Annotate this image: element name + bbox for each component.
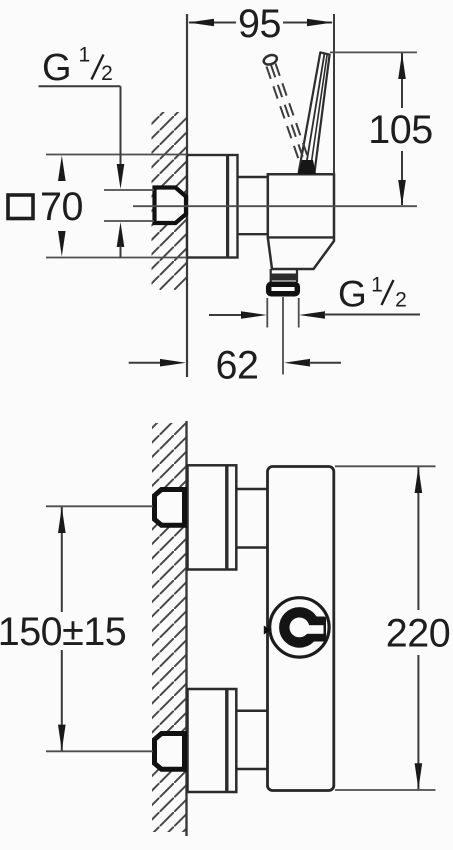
lower escutcheon [188,689,237,792]
dimension 95 left arrow [188,19,214,27]
thermostat knob inner ring [284,612,314,642]
upper escutcheon [188,465,237,569]
svg-text:95: 95 [238,2,281,46]
temperature index mark [264,626,271,635]
mixer body (side view) [268,174,334,269]
lever handle dashed line 2 [271,65,304,159]
svg-text:220: 220 [386,612,450,656]
lever inner line 2 [310,54,327,172]
lower connector stub top [236,710,267,713]
upper wall union nut (front view) [155,490,185,526]
dimension 150 line lower segment [61,650,63,751]
svg-text:150±15: 150±15 [0,610,126,654]
knob safety button slot [298,625,324,634]
dimension 105 bottom arrow [398,180,406,206]
hose centre line [282,297,284,375]
dimension 62 left arrow [160,359,186,367]
escutcheon plate (side view) [187,155,238,258]
svg-text:1: 1 [371,274,383,297]
wall line (front view) [185,421,187,836]
lever handle dashed line 1 [267,67,300,161]
dimension 95 line right segment [283,22,332,24]
dashed lever tip cap [262,53,278,66]
svg-text:2: 2 [101,62,113,85]
knob safety button [310,617,327,642]
counter arrow tail [120,246,122,258]
hose thread dim right arrow [299,311,325,319]
upper connector stub top [236,488,267,491]
hose thread dim left arrow [241,311,267,319]
hose union nut (side view) [269,284,298,294]
centre axis line / 105 bottom extension [133,205,417,207]
outlet nipple right edge [296,269,298,282]
mixer body (front view) [268,467,334,791]
dimension 70 bottom arrow [58,231,66,257]
svg-text:105: 105 [368,108,432,152]
svg-text:62: 62 [216,343,259,387]
G 1/2 leader arrow [117,164,125,189]
hose thread dim right line / underline [324,314,420,316]
lever handle (solid position) [299,52,330,172]
dimension 105 top arrow [398,53,406,79]
thread label fraction slash [92,55,104,80]
thread silhouette bottom line [104,220,154,222]
svg-text:1: 1 [78,44,90,67]
body internal line [268,236,334,238]
dimension 70 top arrow [58,156,66,182]
dimension 150 line upper segment [61,507,63,612]
outlet thread band [271,274,297,281]
105 top extension line [330,51,417,53]
outlet nipple left edge [270,269,272,282]
connector neck bottom line [238,233,268,235]
150 bottom extension / centre line [46,750,153,752]
hose thread dim left line [209,314,242,316]
wall union nut (side view) [155,188,187,224]
svg-text:G: G [42,47,72,89]
dimension 62 right arrow [284,359,310,367]
dimension 95 line left segment [189,22,236,24]
220 top extension line [335,465,436,467]
dimension 220 line upper segment [417,467,419,610]
upper escutcheon face line [225,465,228,569]
dimension 150 bottom arrow [58,725,66,751]
lower wall union nut (front view) [155,734,185,770]
wall hatching (front view) [152,423,187,832]
dimension 150 top arrow [58,507,66,533]
220 bottom extension line [335,789,436,791]
lower connector stub bottom [236,768,267,771]
70 top extension line [46,154,187,156]
dimension 220 top arrow [415,467,423,493]
70 bottom extension line [46,257,187,259]
G 1/2 leader line [120,86,122,166]
dimension 105 line upper segment [401,53,403,108]
escutcheon face line [226,155,229,258]
svg-text:G: G [338,274,367,315]
G 1/2 underline [39,85,121,87]
dimension 62 right line [309,362,341,364]
extension line right of hose nut [298,298,300,328]
lever handle dashed line 3 [276,64,309,158]
dimension 220 bottom arrow [415,763,423,789]
wall line / 95 left extension [186,14,188,377]
dimension 220 line lower segment [417,655,419,789]
dimension 105 line lower segment [401,151,403,205]
lower escutcheon face line [225,689,228,792]
150 top extension / centre line [46,505,153,507]
95 right extension line [333,14,335,174]
lever base shadow [298,160,316,174]
thermostat knob outer circle [270,598,329,657]
connector neck top line [238,176,268,178]
extension line left of hose nut [266,298,268,328]
counter arrow below nut [117,222,125,247]
lever inner line 1 [305,53,325,172]
svg-text:2: 2 [395,289,407,312]
dimension 62 left line [129,362,161,364]
svg-text:70: 70 [40,185,83,229]
wall hatching (side view) [152,112,188,290]
hose thread fraction slash [382,280,394,305]
dimension 95 right arrow [307,19,333,27]
thread silhouette top line [104,189,154,191]
square symbol [8,195,33,219]
upper connector stub bottom [236,546,267,549]
